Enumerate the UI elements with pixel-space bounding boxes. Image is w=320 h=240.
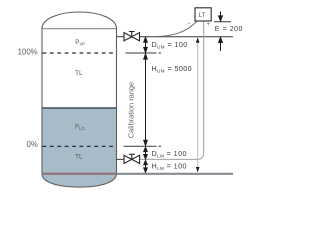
lower tap nozzle wire <box>117 158 124 160</box>
svg-text:TL: TL <box>75 154 83 161</box>
dimension D_UM <box>144 37 148 52</box>
100% level extension line <box>126 52 155 54</box>
0% level dashed line <box>43 145 117 147</box>
datum line inside tank (bottom tangent, maroon) <box>42 173 117 175</box>
calibration range dimension line <box>144 54 148 145</box>
impulse line to LT minus port <box>157 21 197 36</box>
svg-text:TL: TL <box>75 70 83 77</box>
svg-text:PVP: PVP <box>75 39 85 46</box>
svg-text:100%: 100% <box>18 48 38 57</box>
100% level dashed line <box>43 52 117 54</box>
impulse line plus side (vertical + bottom run) <box>140 21 204 159</box>
dimension H_LM <box>144 160 148 172</box>
svg-text:DLM = 100: DLM = 100 <box>152 149 187 159</box>
dimension E top reference line <box>214 21 231 23</box>
dimension H_UM line (tap to datum) <box>196 37 200 172</box>
0% level extension line <box>124 145 155 147</box>
svg-text:E = 200: E = 200 <box>215 24 243 33</box>
liquid surface line <box>42 107 117 109</box>
upper tap line extension (E reference) <box>140 36 234 38</box>
upper valve V1 <box>124 32 140 41</box>
svg-text:LT: LT <box>198 12 205 19</box>
level transmitter LT <box>195 8 211 21</box>
svg-text:HUM = 5000: HUM = 5000 <box>152 64 193 74</box>
datum/ground line right of tank <box>117 173 234 175</box>
tank bottom dome <box>42 174 117 188</box>
tank top tangent line <box>42 28 117 30</box>
upper tap nozzle wire <box>117 36 125 38</box>
svg-text:HLM = 100: HLM = 100 <box>152 161 187 171</box>
tank top dome <box>42 12 117 29</box>
liquid fill <box>42 108 117 187</box>
dimension D_LM <box>144 147 148 159</box>
svg-text:DUM = 100: DUM = 100 <box>152 40 188 50</box>
dimension E arrows <box>219 12 223 52</box>
svg-text:−: − <box>187 21 191 27</box>
tank shell <box>42 29 117 174</box>
svg-text:+: + <box>206 22 210 28</box>
svg-text:0%: 0% <box>27 140 38 149</box>
lower valve V2 <box>124 154 140 163</box>
svg-text:Calibration range: Calibration range <box>127 82 136 138</box>
